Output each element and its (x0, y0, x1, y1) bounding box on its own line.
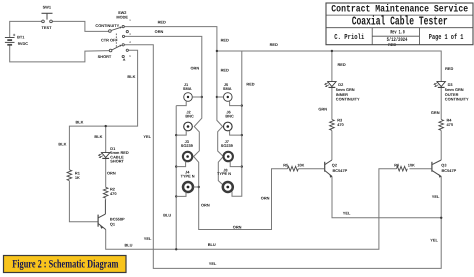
svg-text:470: 470 (447, 122, 454, 127)
svg-text:RED: RED (270, 42, 278, 47)
svg-text:SW1: SW1 (43, 5, 52, 10)
svg-text:BLU: BLU (163, 213, 171, 218)
svg-text:RED: RED (246, 81, 254, 86)
svg-text:5/12/2024: 5/12/2024 (387, 37, 408, 43)
svg-text:SO239: SO239 (221, 143, 234, 148)
svg-text:ORN: ORN (107, 171, 116, 176)
svg-text:ORN: ORN (191, 65, 200, 70)
svg-text:YEL: YEL (432, 194, 440, 199)
svg-text:MODE: MODE (116, 15, 128, 20)
svg-text:BC547P: BC547P (333, 168, 348, 173)
svg-text:YEL: YEL (430, 237, 438, 242)
svg-text:TYPE N: TYPE N (217, 171, 231, 176)
svg-text:BC547P: BC547P (442, 168, 457, 173)
svg-text:GRN: GRN (318, 107, 327, 112)
svg-text:+: + (13, 33, 16, 38)
svg-text:1K: 1K (75, 175, 80, 180)
svg-text:CONTINUITY: CONTINUITY (445, 96, 469, 101)
svg-text:BT1: BT1 (17, 34, 25, 39)
svg-text:CONTINUITY: CONTINUITY (336, 96, 360, 101)
svg-text:10K: 10K (297, 162, 304, 167)
svg-text:Page 1 of 1: Page 1 of 1 (429, 34, 464, 42)
svg-text:SO239: SO239 (181, 143, 194, 148)
svg-text:RED: RED (158, 19, 166, 24)
svg-text:RED: RED (221, 38, 229, 43)
svg-text:BLK: BLK (58, 142, 66, 147)
svg-text:BLU: BLU (208, 242, 216, 247)
svg-text:BLK: BLK (76, 119, 84, 124)
svg-text:BNC: BNC (225, 113, 234, 118)
svg-text:ORN: ORN (233, 225, 242, 230)
svg-text:SMA: SMA (223, 86, 232, 91)
svg-text:470: 470 (337, 122, 344, 127)
svg-text:RED: RED (445, 66, 453, 71)
svg-text:ORN: ORN (261, 196, 270, 201)
svg-text:BLK: BLK (127, 74, 135, 79)
svg-text:R5: R5 (283, 162, 289, 167)
svg-text:R6: R6 (394, 162, 400, 167)
svg-text:RED: RED (221, 67, 229, 72)
svg-text:470: 470 (110, 191, 117, 196)
svg-text:YEL: YEL (209, 261, 217, 266)
svg-text:ORN: ORN (201, 203, 210, 208)
svg-text:RED: RED (338, 62, 346, 67)
svg-text:YEL: YEL (143, 134, 151, 139)
svg-text:BLK: BLK (94, 134, 102, 139)
svg-text:ORN: ORN (155, 29, 164, 34)
svg-text:Rev 1.0: Rev 1.0 (390, 29, 405, 35)
svg-text:GRN: GRN (431, 110, 440, 115)
svg-text:10K: 10K (408, 162, 415, 167)
svg-text:SMA: SMA (183, 86, 192, 91)
svg-text:YEL: YEL (343, 211, 351, 216)
svg-text:SHORT: SHORT (110, 158, 124, 163)
svg-text:CONTINUITY: CONTINUITY (95, 23, 119, 28)
svg-text:Q2: Q2 (332, 163, 338, 168)
svg-text:Figure 2 : Schematic Diagram: Figure 2 : Schematic Diagram (12, 259, 119, 271)
svg-text:Q3: Q3 (441, 163, 447, 168)
svg-text:CTR OFF: CTR OFF (101, 38, 118, 43)
svg-text:TEST: TEST (42, 25, 53, 30)
svg-text:9VDC: 9VDC (18, 41, 29, 46)
svg-text:BLU: BLU (125, 243, 133, 248)
svg-text:C. Prioli: C. Prioli (334, 34, 364, 42)
svg-text:TYPE N: TYPE N (181, 174, 195, 179)
svg-text:BNC: BNC (185, 113, 194, 118)
svg-text:SHORT: SHORT (98, 54, 112, 59)
svg-text:Q1: Q1 (110, 221, 116, 226)
svg-text:Coaxial Cable Tester: Coaxial Cable Tester (352, 15, 448, 29)
svg-text:YEL: YEL (144, 236, 152, 241)
